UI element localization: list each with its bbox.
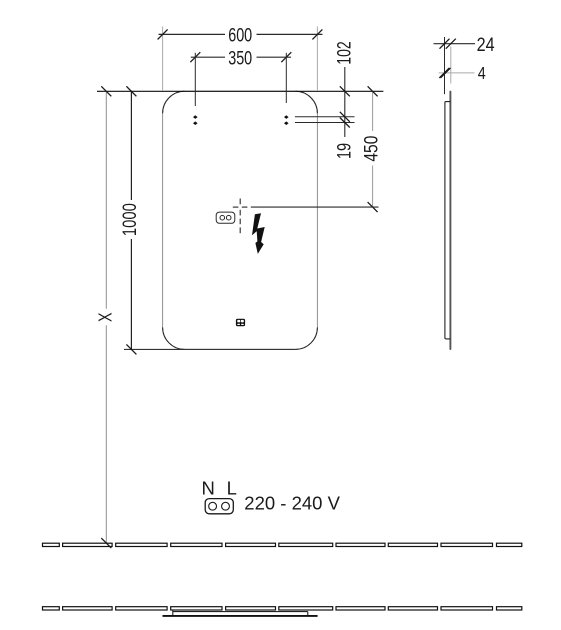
- tick 1000 bottom: [126, 344, 136, 354]
- tick 4 left: [439, 68, 449, 78]
- mains socket symbol: [205, 499, 233, 514]
- top view wall tile 8: [388, 607, 437, 610]
- top view wall tile 10: [497, 607, 522, 610]
- wall tile 6: [279, 543, 333, 546]
- extension line gray right (600 dim): [316, 27, 318, 92]
- tick 24 right: [446, 39, 456, 49]
- tick 19 upper: [340, 112, 350, 122]
- svg-text:450: 450: [361, 135, 383, 161]
- dimension line 600: [159, 33, 226, 35]
- mirror outline (front view, rounded rect): [163, 91, 318, 349]
- tick 102 at mirror top: [340, 86, 350, 96]
- extension line mirror bottom edge: [124, 348, 295, 350]
- tick 19 lower: [340, 118, 350, 128]
- leader line 19 bottom: [295, 122, 355, 124]
- center crosshair horizontal dash left: [233, 206, 239, 208]
- svg-text:102: 102: [333, 41, 355, 65]
- wall tile 10: [497, 543, 522, 546]
- tick X bottom (at wall line): [101, 538, 111, 548]
- dimension line 350: [191, 56, 225, 58]
- corner arc bottom-right: [295, 327, 317, 349]
- top view wall tile 1: [43, 607, 60, 610]
- socket symbol inside mirror: [216, 212, 235, 223]
- top view wall tile 3: [116, 607, 167, 610]
- svg-text:1000: 1000: [119, 203, 141, 236]
- tick X top: [101, 86, 111, 96]
- tick 450 top: [368, 86, 378, 96]
- wall tile 9: [441, 543, 493, 546]
- extension line 350 left: [194, 53, 196, 106]
- center crosshair horizontal dash right: [242, 206, 248, 208]
- side view: mirror glass front face: [449, 92, 451, 349]
- svg-text:X: X: [95, 312, 115, 322]
- tick 1000 top: [126, 86, 136, 96]
- tick 4 right: [441, 68, 451, 78]
- top view wall tile 9: [441, 607, 493, 610]
- tick 350 left: [190, 52, 200, 62]
- tick 450 bottom: [368, 202, 378, 212]
- center crosshair vertical dash 1: [239, 199, 241, 205]
- svg-text:350: 350: [228, 47, 252, 69]
- wall tile 8: [388, 543, 437, 546]
- wall tile 3: [116, 543, 167, 546]
- corner arc bottom-left: [163, 327, 185, 349]
- corner arc top-right: [295, 91, 317, 113]
- wall tile 5: [226, 543, 276, 546]
- leader line from center point to 450 dim: [251, 206, 379, 208]
- svg-text:L: L: [227, 478, 237, 499]
- svg-text:600: 600: [228, 25, 252, 47]
- top view wall tile 5: [226, 607, 276, 610]
- tick 350 right: [281, 52, 291, 62]
- extension line 350 right: [285, 53, 287, 103]
- top view wall tile 6: [279, 607, 333, 610]
- svg-text:19: 19: [333, 143, 355, 159]
- corner arc top-left: [163, 91, 185, 113]
- wall tile 2: [63, 543, 113, 546]
- extension line gray left (600 dim): [162, 27, 164, 92]
- svg-text:24: 24: [477, 34, 495, 56]
- side ext line black (24 dim left): [444, 37, 446, 94]
- tick 600 right: [312, 29, 322, 39]
- svg-text:N: N: [202, 478, 215, 499]
- top view wall tile 2: [63, 607, 113, 610]
- tick 24 left: [440, 39, 450, 49]
- sensor icon at mirror bottom center: [236, 319, 245, 327]
- wall tile 4: [171, 543, 222, 546]
- svg-text:4: 4: [478, 63, 486, 83]
- extension line mirror top edge: [97, 90, 383, 92]
- center crosshair vertical dash 3: [239, 219, 241, 225]
- top view wall tile 7: [336, 607, 385, 610]
- center crosshair vertical dash 2: [239, 210, 241, 216]
- top view mirror glass (thick line): [163, 615, 318, 617]
- mounting hole diamonds right: [284, 115, 289, 119]
- svg-text:220 - 240 V: 220 - 240 V: [244, 492, 340, 513]
- side view: housing back face and caps: [445, 102, 451, 339]
- top view housing box: [173, 610, 308, 615]
- leader 24: [434, 43, 476, 45]
- wall line (elevation) tile 1: [43, 543, 60, 546]
- center crosshair vertical dash 4: [239, 227, 241, 233]
- tick 600 left: [158, 29, 168, 39]
- mounting hole diamonds left: [193, 115, 198, 119]
- leader 4 (gray): [439, 72, 475, 74]
- dimension line 1000: [130, 91, 132, 200]
- lightning bolt: [252, 213, 265, 254]
- wall tile 7: [336, 543, 385, 546]
- top view wall tile 4: [171, 607, 222, 610]
- leader line 19 top: [295, 116, 355, 118]
- dimension line X (gray, full height): [105, 91, 107, 308]
- side ext line gray (24 dim right): [450, 47, 452, 84]
- dimension line 102/19 vertical: [344, 67, 346, 137]
- dimension line 450 (gray): [372, 91, 374, 131]
